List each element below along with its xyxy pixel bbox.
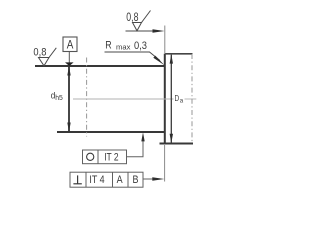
extension line above shoulder <box>164 26 166 54</box>
dimension line D_a <box>170 54 173 143</box>
wire: flange bottom edge <box>160 143 194 145</box>
roughness symbol right: triangle <box>133 23 142 31</box>
datum stem <box>68 52 70 63</box>
dimension line d_h5 <box>67 66 70 131</box>
centerline (axis), right segment <box>185 98 197 100</box>
svg-text:0,8: 0,8 <box>126 12 138 24</box>
svg-text:a: a <box>180 98 184 105</box>
datum A box <box>63 37 77 52</box>
circularity leader with arrow <box>127 132 145 157</box>
svg-text:IT 2: IT 2 <box>104 151 118 163</box>
svg-text:0,3: 0,3 <box>134 40 147 52</box>
break line dash-dot, left <box>86 58 88 137</box>
break line dash-dot, right <box>191 54 193 144</box>
svg-text:A: A <box>67 39 74 51</box>
centerline (axis), left segment <box>73 98 174 100</box>
svg-text:A: A <box>117 174 124 186</box>
roughness symbol right: extended leg <box>142 11 151 23</box>
svg-text:D: D <box>175 94 180 103</box>
roughness symbol left: extended leg <box>49 48 56 58</box>
svg-text:max: max <box>116 43 131 52</box>
roughness symbol right: leader with arrow <box>126 29 165 33</box>
svg-text:B: B <box>133 174 139 186</box>
wire: flange top edge <box>165 53 193 55</box>
label D_a <box>175 94 184 105</box>
svg-text:h5: h5 <box>55 95 63 102</box>
extension line below flange <box>164 145 166 182</box>
perpendicularity leader with arrow <box>143 177 164 181</box>
wire: bearing seat top surface line <box>35 65 165 67</box>
label d_h5 <box>51 90 63 103</box>
fillet leader with arrow <box>105 52 165 65</box>
svg-text:R: R <box>105 40 111 52</box>
circularity feature control frame <box>83 150 127 164</box>
svg-text:IT 4: IT 4 <box>89 174 104 186</box>
wire: bearing seat bottom surface line <box>57 131 165 133</box>
roughness symbol left: triangle <box>39 58 50 66</box>
wire: shoulder face (flange left edge) <box>164 54 166 144</box>
datum triangle (filled) <box>65 62 74 66</box>
svg-text:0,8: 0,8 <box>33 47 46 59</box>
fillet note text R max 0,3 <box>105 40 147 52</box>
perpendicularity feature control frame <box>70 172 143 187</box>
